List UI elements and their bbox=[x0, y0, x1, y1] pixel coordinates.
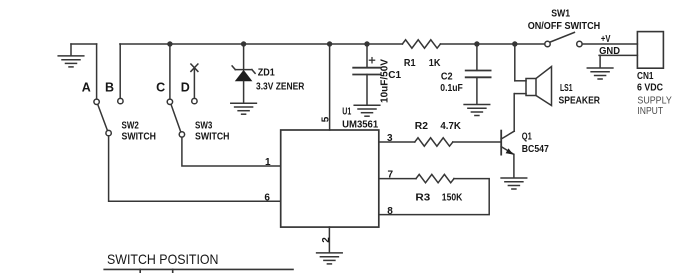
svg-text:INPUT: INPUT bbox=[637, 105, 663, 117]
svg-text:ON/OFF SWITCH: ON/OFF SWITCH bbox=[528, 21, 601, 32]
svg-text:D: D bbox=[181, 81, 190, 95]
switch SW1 bbox=[545, 41, 550, 46]
svg-text:Q1: Q1 bbox=[522, 132, 532, 143]
wire U1 pin5 to rail bbox=[329, 44, 331, 130]
svg-text:4.7K: 4.7K bbox=[440, 121, 461, 132]
switch contact A bbox=[94, 99, 99, 104]
switch contact C bbox=[167, 99, 172, 104]
svg-text:6 VDC: 6 VDC bbox=[637, 83, 663, 94]
svg-text:A: A bbox=[82, 81, 91, 95]
svg-text:10uF/50V: 10uF/50V bbox=[379, 59, 390, 103]
wire GND CN1 bbox=[599, 54, 637, 56]
wire U1 pin2 to ground bbox=[328, 227, 330, 253]
svg-text:BC547: BC547 bbox=[522, 144, 549, 155]
svg-text:R1: R1 bbox=[404, 58, 416, 69]
svg-text:LS1: LS1 bbox=[560, 83, 573, 94]
switch contact B bbox=[118, 98, 123, 103]
speaker LS1 bbox=[515, 80, 526, 82]
node D no-connect X bbox=[191, 64, 198, 71]
svg-text:0.1uF: 0.1uF bbox=[440, 83, 463, 94]
ground (C2) bbox=[464, 105, 490, 116]
wire D down bbox=[193, 68, 195, 99]
ground (Q1 emitter) bbox=[501, 178, 527, 189]
capacitor C1 bbox=[366, 44, 368, 68]
svg-text:3.3V ZENER: 3.3V ZENER bbox=[256, 81, 305, 92]
wire SW3 to pin1 bbox=[182, 137, 281, 166]
svg-text:C2: C2 bbox=[441, 72, 453, 83]
wire pin7 to R3 bbox=[379, 178, 416, 180]
svg-text:UM3561: UM3561 bbox=[342, 120, 379, 131]
svg-text:7: 7 bbox=[388, 170, 394, 181]
svg-text:3: 3 bbox=[387, 133, 393, 144]
table header line bbox=[104, 268, 293, 270]
svg-text:+V: +V bbox=[601, 34, 611, 45]
svg-text:SWITCH: SWITCH bbox=[195, 131, 230, 142]
switch SW2 pole bbox=[106, 130, 111, 135]
wire +V rail left bbox=[120, 43, 403, 45]
wire R2 to Q1 base bbox=[453, 141, 501, 143]
ground (U1 pin2) bbox=[317, 253, 343, 264]
switch SW3 pole bbox=[179, 132, 184, 137]
svg-text:R2: R2 bbox=[415, 121, 429, 132]
ground (C1) bbox=[354, 105, 380, 116]
svg-text:2: 2 bbox=[321, 237, 332, 243]
wire rail right of R1 bbox=[440, 43, 544, 45]
svg-text:R3: R3 bbox=[415, 193, 430, 204]
svg-text:SPEAKER: SPEAKER bbox=[559, 95, 601, 106]
IC U1 box bbox=[281, 130, 379, 227]
node speaker branch junction bbox=[512, 41, 517, 46]
resistor R2 bbox=[415, 138, 453, 146]
capacitor C2 bbox=[476, 44, 478, 70]
svg-text:150K: 150K bbox=[442, 193, 463, 204]
svg-text:U1: U1 bbox=[342, 107, 351, 118]
ground (CN1) bbox=[587, 68, 613, 79]
svg-text:5: 5 bbox=[321, 116, 332, 122]
wire rail to speaker bbox=[514, 44, 516, 81]
svg-text:8: 8 bbox=[387, 206, 393, 217]
svg-text:SW3: SW3 bbox=[195, 121, 213, 132]
svg-text:C: C bbox=[156, 81, 165, 95]
svg-text:1: 1 bbox=[265, 157, 271, 168]
svg-text:ZD1: ZD1 bbox=[258, 67, 275, 78]
resistor R1 bbox=[402, 40, 440, 48]
transistor Q1 collector wire bbox=[513, 94, 515, 132]
switch contact D bbox=[192, 98, 197, 103]
switch SW3 arm bbox=[171, 105, 181, 132]
svg-text:6: 6 bbox=[264, 192, 270, 203]
transistor Q1 bbox=[500, 131, 502, 155]
ground (top-left, switch A) bbox=[70, 44, 72, 56]
svg-text:B: B bbox=[105, 81, 114, 95]
svg-text:CN1: CN1 bbox=[637, 71, 654, 82]
wire B down bbox=[119, 44, 121, 98]
switch SW2 arm bbox=[98, 105, 108, 131]
wire A down bbox=[96, 44, 98, 99]
svg-text:GND: GND bbox=[599, 46, 620, 57]
wire pin3 to R2 bbox=[379, 141, 415, 143]
connector CN1 bbox=[637, 32, 663, 69]
wire R3 loop to pin8 bbox=[379, 179, 489, 215]
svg-text:SW1: SW1 bbox=[551, 9, 570, 20]
wire ground to switch A bbox=[71, 43, 97, 45]
svg-text:SWITCH: SWITCH bbox=[122, 131, 157, 142]
zener diode ZD1 bbox=[243, 44, 245, 70]
svg-text:1K: 1K bbox=[429, 58, 441, 69]
ground (ZD1) bbox=[231, 103, 257, 114]
wire SW1 to CN1 bbox=[582, 43, 637, 45]
wire SW2 to pin6 bbox=[109, 136, 281, 201]
svg-text:SWITCH POSITION: SWITCH POSITION bbox=[107, 251, 219, 267]
wire C down bbox=[169, 44, 171, 99]
svg-text:SW2: SW2 bbox=[122, 121, 140, 132]
node C rail junction bbox=[167, 41, 172, 46]
resistor R3 bbox=[416, 174, 454, 182]
